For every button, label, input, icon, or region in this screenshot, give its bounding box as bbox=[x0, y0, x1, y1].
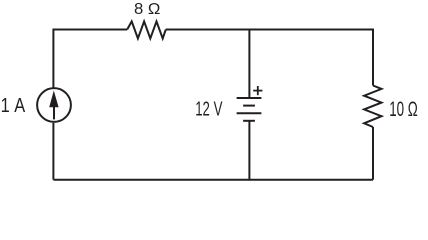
wire bottom segment bbox=[53, 179, 373, 181]
battery V1 plate short bottom bbox=[243, 120, 255, 122]
wire middle-top segment bbox=[248, 30, 250, 98]
wire middle-bottom segment bbox=[248, 121, 250, 179]
battery V1 plate long top bbox=[237, 97, 262, 99]
wire right-bottom segment bbox=[372, 127, 374, 180]
svg-text:8 Ω: 8 Ω bbox=[134, 1, 161, 18]
battery V1 plus sign bbox=[253, 86, 262, 95]
resistor R1 8 ohm zigzag bbox=[127, 21, 166, 38]
svg-text:10 Ω: 10 Ω bbox=[389, 98, 418, 121]
battery V1 plate long lower bbox=[237, 112, 262, 114]
current source I1 arrow shaft bbox=[53, 104, 55, 119]
resistor R2 10 ohm zigzag bbox=[364, 86, 381, 128]
svg-text:12 V: 12 V bbox=[195, 99, 223, 121]
battery V1 plate short upper bbox=[243, 105, 255, 107]
wire top-right segment bbox=[166, 30, 373, 86]
wire top-left segment bbox=[53, 30, 127, 89]
current source I1 arrowhead bbox=[49, 91, 58, 108]
wire left-bottom segment bbox=[52, 123, 54, 180]
current source I1 circle bbox=[37, 88, 71, 122]
svg-text:1 A: 1 A bbox=[1, 95, 26, 117]
